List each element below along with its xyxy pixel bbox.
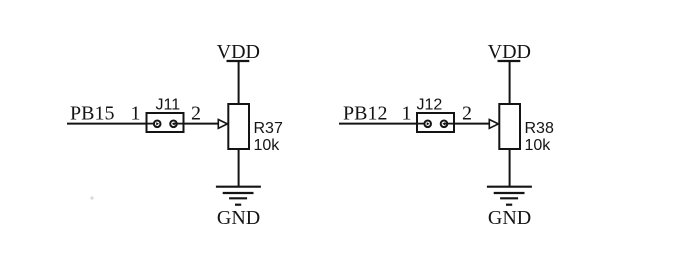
J11 pin 1 arrowhead (156, 122, 159, 125)
svg-text:VDD: VDD (217, 41, 260, 63)
wire J11 pin 2 to R37 (184, 123, 220, 125)
svg-text:GND: GND (217, 207, 260, 229)
ground symbol (right) line 2 (494, 192, 525, 194)
J12 pin 1 lead (417, 123, 427, 125)
wire PB15 to J11 pin 1 (67, 123, 148, 125)
J12 pin 2 circle (441, 121, 448, 128)
power symbol VDD (left) (227, 60, 250, 62)
wire J12 pin 2 to R38 (454, 123, 490, 125)
svg-text:2: 2 (191, 103, 201, 125)
svg-text:J12: J12 (417, 97, 443, 114)
wire R37 bottom to ground (238, 149, 240, 188)
ground symbol (right) line 1 (487, 186, 532, 188)
svg-text:1: 1 (131, 103, 141, 125)
J11 pin 1 lead (147, 123, 157, 125)
J11 pin 1 circle (154, 121, 161, 128)
ground symbol (right) line 3 (500, 197, 518, 199)
svg-text:VDD: VDD (488, 41, 531, 63)
svg-text:R37: R37 (254, 120, 283, 137)
svg-text:R38: R38 (525, 120, 554, 137)
wire VDD to R37 top (238, 61, 240, 105)
J11 pin 2 circle (170, 121, 177, 128)
ground symbol (left) line 1 (216, 186, 261, 188)
svg-text:1: 1 (402, 103, 412, 125)
wire R38 bottom to ground (509, 149, 511, 188)
input arrow into R38 (489, 120, 498, 129)
svg-text:10k: 10k (254, 137, 281, 154)
svg-text:PB12: PB12 (343, 103, 387, 125)
connector J11 body (147, 113, 184, 132)
svg-text:J11: J11 (156, 97, 181, 114)
power symbol VDD (right) (498, 60, 521, 62)
wire PB12 to J12 pin 1 (339, 123, 419, 125)
J11 pin 2 arrowhead (172, 122, 175, 125)
J11 pin 2 lead (175, 123, 184, 125)
stray scan dot (90, 196, 93, 199)
ground symbol (left) line 3 (229, 197, 247, 199)
svg-text:PB15: PB15 (70, 103, 114, 125)
svg-text:10k: 10k (525, 137, 552, 154)
resistor R37 body (228, 104, 249, 149)
J12 pin 2 lead (445, 123, 454, 125)
ground symbol (left) line 4 (235, 204, 241, 206)
wire VDD to R38 top (509, 61, 511, 105)
input arrow into R37 (218, 120, 227, 129)
svg-text:2: 2 (462, 103, 472, 125)
ground symbol (right) line 4 (506, 204, 512, 206)
ground symbol (left) line 2 (223, 192, 254, 194)
J12 pin 1 circle (424, 121, 431, 128)
connector J12 body (417, 113, 454, 132)
svg-text:GND: GND (488, 207, 531, 229)
J12 pin 2 arrowhead (442, 122, 445, 125)
J12 pin 1 arrowhead (427, 122, 430, 125)
resistor R38 body (499, 104, 520, 149)
